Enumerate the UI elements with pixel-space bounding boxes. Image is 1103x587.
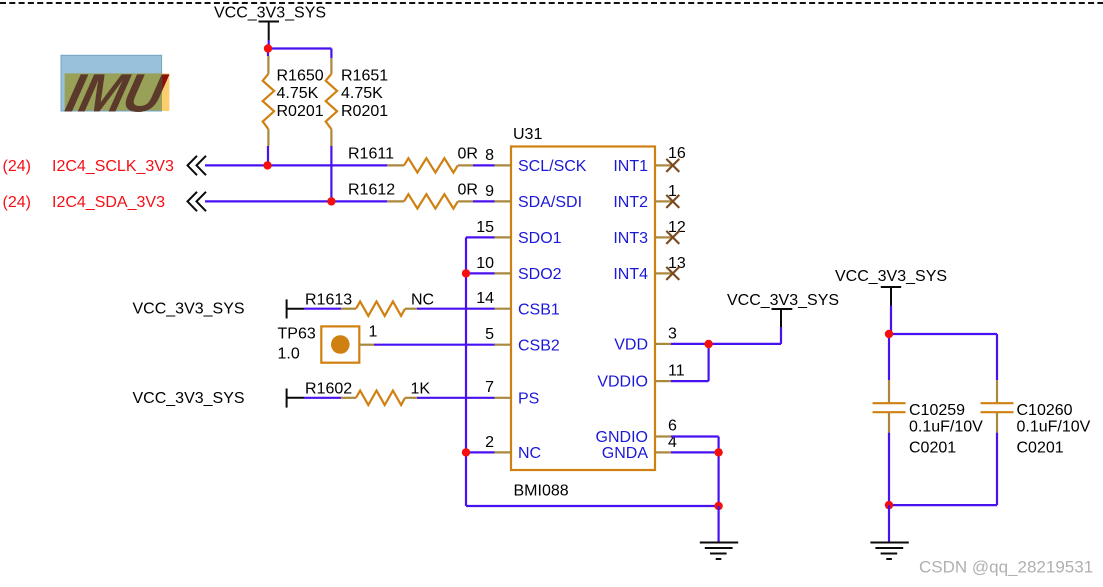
pin 8 stub [485,147,511,165]
resistor R1612 0R [348,182,478,209]
net label I2C4_SDA_3V3 [3,192,207,211]
svg-text:8: 8 [485,147,494,164]
svg-text:NC: NC [411,292,434,309]
svg-text:15: 15 [476,219,494,236]
svg-text:R1612: R1612 [348,182,395,199]
svg-text:VCC_3V3_SYS: VCC_3V3_SYS [835,268,947,285]
pin 16 stub [655,145,686,165]
ground symbol right [870,543,908,560]
resistor R1650 4.75K [263,56,324,146]
svg-text:CSDN @qq_28219531: CSDN @qq_28219531 [919,558,1093,577]
pin 6 stub [655,418,677,437]
power VCC_3V3_SYS above C10259 [835,268,947,334]
wire C10260 bottom [996,433,998,505]
svg-text:SDO2: SDO2 [518,266,562,283]
svg-text:4.75K: 4.75K [341,85,383,102]
pin 7 stub [485,379,511,398]
wire SDA row [205,200,387,202]
wire R1612 to pin 9 [473,200,495,202]
svg-text:INT3: INT3 [613,230,648,247]
svg-text:9: 9 [485,183,494,200]
ground symbol left [700,543,738,560]
resistor R1613 NC [305,292,434,316]
resistor R1611 0R [348,146,478,173]
svg-text:U31: U31 [513,126,542,143]
junction dot VDD [704,340,712,348]
wire GNDIO/GNDA net [671,437,719,507]
wire SCLK row [205,164,387,166]
test point TP63 [278,324,378,363]
pin 12 stub [655,219,686,237]
svg-text:VCC_3V3_SYS: VCC_3V3_SYS [133,301,245,318]
svg-text:1K: 1K [411,381,431,398]
svg-text:VCC_3V3_SYS: VCC_3V3_SYS [214,5,326,22]
svg-text:INT2: INT2 [613,194,648,211]
no-connect X INT4 [666,267,679,280]
svg-text:14: 14 [476,290,494,307]
svg-text:VDD: VDD [614,337,648,354]
svg-text:(24): (24) [3,158,31,175]
svg-text:16: 16 [668,145,686,162]
svg-text:C10260: C10260 [1017,402,1073,419]
junction dot NC branch [462,448,470,456]
svg-text:SDA/SDI: SDA/SDI [518,194,582,211]
wire R1613 to pin 14 [417,308,495,310]
junction dot cap bottom [885,501,893,509]
pin names left [518,158,587,462]
wire cap top bus [889,334,997,380]
svg-text:1: 1 [369,324,378,341]
svg-text:R1650: R1650 [277,68,324,85]
svg-text:6: 6 [668,418,677,435]
IC U31 BMI088 [476,126,686,500]
svg-text:NC: NC [518,445,541,462]
svg-text:IMU: IMU [60,62,173,123]
no-connect X INT1 [666,159,679,172]
wire cap bottom bus [889,504,997,506]
IMU logo [60,55,173,123]
wire to ground [717,506,719,542]
wire VCC to R1613 [304,308,341,310]
junction dot SCLK / R1650 [263,161,271,169]
svg-text:I2C4_SDA_3V3: I2C4_SDA_3V3 [52,194,165,211]
svg-text:C0201: C0201 [1017,439,1064,456]
svg-text:7: 7 [485,379,494,396]
svg-text:R1602: R1602 [305,381,352,398]
wire TP63 to pin 5 [374,344,495,346]
svg-text:(24): (24) [3,194,31,211]
svg-text:BMI088: BMI088 [514,483,569,500]
svg-text:1.0: 1.0 [278,346,300,363]
wire R1602 to pin 7 [417,397,495,399]
svg-text:R1611: R1611 [348,146,394,163]
svg-text:0R: 0R [458,182,478,199]
svg-text:C10259: C10259 [909,402,965,419]
wire VDD net [671,344,781,381]
wire NC pin branch [466,451,495,453]
svg-text:SDO1: SDO1 [518,230,562,247]
wire cap to ground [888,505,890,542]
svg-text:CSB1: CSB1 [518,302,560,319]
pin 5 stub [485,326,511,345]
wire VCC to R1602 [304,397,341,399]
pin 13 stub [655,255,686,273]
pin names right [596,158,649,462]
svg-text:GNDA: GNDA [602,445,649,462]
svg-text:VDDIO: VDDIO [597,374,648,391]
wire from power to resistors [268,49,331,59]
svg-text:I2C4_SCLK_3V3: I2C4_SCLK_3V3 [52,158,174,175]
svg-text:0.1uF/10V: 0.1uF/10V [909,419,983,436]
pin 2 stub [485,434,511,452]
resistor R1602 1K [305,381,430,405]
junction dot at power split [264,44,272,52]
svg-text:R1651: R1651 [341,68,388,85]
junction dot SDO2 [462,269,470,277]
svg-text:R1613: R1613 [305,292,352,309]
pin 4 stub [655,434,677,452]
wire SDO1 branch [466,237,495,506]
pin 1 stub [655,183,677,201]
power VCC_3V3_SYS at PS row [133,389,305,408]
svg-text:11: 11 [668,363,685,380]
power VCC_3V3_SYS at VDD [727,292,839,344]
svg-text:GNDIO: GNDIO [596,429,648,446]
svg-text:TP63: TP63 [278,326,316,343]
junction dot cap top [885,330,893,338]
pin 11 stub [655,363,685,382]
junction dot SDA / R1651 [327,197,335,205]
wire C10259 bottom [888,433,890,505]
svg-text:R0201: R0201 [341,103,388,120]
pin 9 stub [485,183,511,201]
svg-text:VCC_3V3_SYS: VCC_3V3_SYS [133,390,245,407]
svg-text:C0201: C0201 [909,439,956,456]
svg-text:R0201: R0201 [277,103,324,120]
capacitor C10260 0.1uF/10V [981,380,1091,456]
svg-text:3: 3 [668,325,677,342]
svg-text:CSB2: CSB2 [518,338,560,355]
svg-text:PS: PS [518,391,539,408]
wire R1650 to SCLK net [267,146,269,165]
no-connect X INT3 [666,231,679,244]
pin 14 stub [476,290,511,309]
net label I2C4_SCLK_3V3 [3,156,207,175]
junction dot bottom [714,502,722,510]
power VCC_3V3_SYS at CSB1 row [133,299,305,318]
power VCC_3V3_SYS top [214,5,326,49]
pin 15 stub [476,219,511,237]
wire SDO2 branch [466,272,495,274]
svg-text:INT4: INT4 [613,266,648,283]
svg-text:INT1: INT1 [613,158,648,175]
svg-text:10: 10 [476,255,494,272]
resistor R1651 4.75K [326,58,389,146]
svg-text:4.75K: 4.75K [277,85,319,102]
wire R1651 to SDA net [330,146,332,201]
svg-text:SCL/SCK: SCL/SCK [518,158,587,175]
no-connect X INT2 [666,195,679,208]
pin 10 stub [476,255,511,273]
svg-text:0.1uF/10V: 0.1uF/10V [1017,419,1091,436]
capacitor C10259 0.1uF/10V [873,380,984,456]
pin 3 stub [655,325,677,344]
svg-text:5: 5 [485,326,494,343]
junction dot GNDA [714,448,722,456]
wire bottom ground bus [466,505,719,507]
svg-text:VCC_3V3_SYS: VCC_3V3_SYS [727,292,839,309]
wire R1611 to pin 8 [473,164,495,166]
svg-text:2: 2 [485,434,494,451]
svg-text:0R: 0R [458,146,478,163]
